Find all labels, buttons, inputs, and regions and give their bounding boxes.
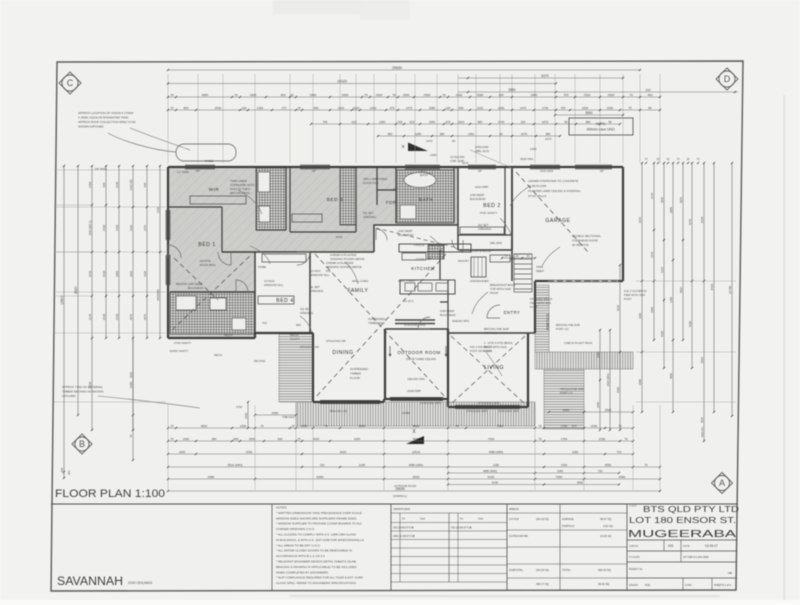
svg-text:4075: 4075 [143,313,147,320]
svg-text:615: 615 [410,120,415,124]
svg-text:PORTICO: PORTICO [546,314,550,331]
svg-text:1010: 1010 [477,106,484,110]
svg-text:ROBE: ROBE [258,265,266,269]
svg-text:1150MM STEPDOWN TO CONCRETE: 1150MM STEPDOWN TO CONCRETE [528,179,578,183]
svg-text:OPENING ROOMS ABOVE: OPENING ROOMS ABOVE [330,257,365,261]
svg-text:700: 700 [262,321,267,325]
svg-text:POD VANITY: POD VANITY [480,211,497,215]
svg-text:PORTICO:: PORTICO: [562,524,575,528]
svg-text:14482: 14482 [402,411,410,415]
witness lines [167,74,169,163]
svg-text:COOK & ADJSD: COOK & ADJSD [470,249,491,253]
svg-text:KISS: KISS [336,235,343,239]
svg-text:FLOOR PLAN 1:100: FLOOR PLAN 1:100 [55,488,165,500]
svg-text:260.00 SQ: 260.00 SQ [598,568,611,572]
svg-text:90: 90 [499,132,503,136]
svg-text:* WINDOW SUPPLIER TO PROVIDE C: * WINDOW SUPPLIER TO PROVIDE COVER BOARD… [276,522,362,526]
svg-text:4180: 4180 [660,331,664,337]
svg-text:DOUBLE SECTIONAL: DOUBLE SECTIONAL [572,234,601,238]
svg-text:OUTDOOR ROOM: OUTDOOR ROOM [394,484,416,488]
svg-text:20: 20 [290,93,294,97]
svg-text:1340: 1340 [669,297,673,303]
svg-text:STUD WALLS: STUD WALLS [528,194,546,198]
svg-text:PORT CO: PORT CO [560,391,573,395]
svg-text:3630: 3630 [102,313,106,320]
svg-text:2530: 2530 [249,437,256,441]
svg-text:51.20 C: 51.20 C [404,299,414,303]
corner marker B [72,434,92,454]
svg-text:5870: 5870 [679,196,683,203]
svg-text:2000: 2000 [563,408,570,412]
svg-text:2700: 2700 [236,405,243,409]
svg-text:1670: 1670 [462,161,469,165]
svg-text:ENSD VANITY: ENSD VANITY [170,349,189,353]
svg-text:6334: 6334 [700,216,704,223]
store room [471,257,486,277]
svg-text:GLASS SPEC. REFER TO ENGINEERS: GLASS SPEC. REFER TO ENGINEERS SPECIFICA… [276,581,357,585]
svg-text:1500: 1500 [403,93,410,97]
svg-text:70: 70 [297,437,301,441]
svg-text:POST: POST [530,305,538,309]
svg-text:8420: 8420 [700,356,704,363]
svg-text:PLASTER LINED CEILING & INTERN: PLASTER LINED CEILING & INTERNAL [528,189,581,193]
svg-text:WINDOW SILL: WINDOW SILL [310,273,330,277]
svg-text:4980 (MIN): 4980 (MIN) [483,469,497,473]
svg-text:1420: 1420 [115,224,119,231]
svg-text:1470: 1470 [426,139,433,143]
scan edge shadow right [783,95,786,600]
svg-text:2880: 2880 [638,378,642,385]
svg-text:890x2110 GD: 890x2110 GD [330,409,347,413]
svg-text:4370: 4370 [638,216,642,223]
svg-text:70: 70 [291,424,295,428]
svg-text:PORT CO: PORT CO [484,331,498,335]
timber deck band below house [296,402,535,426]
svg-text:8630: 8630 [359,424,366,428]
svg-text:3090: 3090 [477,93,484,97]
section marker triangle top [408,143,428,152]
svg-text:F.S.DATE: F.S.DATE [629,556,640,559]
svg-text:TIMBER FLR: TIMBER FLR [368,321,385,325]
svg-text:VIT VER 6.0 JAN 2006: VIT VER 6.0 JAN 2006 [683,556,709,559]
svg-text:STACKING DRS: STACKING DRS [420,401,441,405]
svg-text:940: 940 [459,106,464,110]
svg-text:3890: 3890 [669,372,673,379]
svg-text:4820: 4820 [201,424,208,428]
svg-text:WINDOW SIZES SHOWN ARE SUPPLIE: WINDOW SIZES SHOWN ARE SUPPLIERS FRAME S… [276,516,357,520]
outdoor room walls [384,329,386,399]
svg-text:2540: 2540 [215,106,222,110]
svg-text:1470: 1470 [520,106,527,110]
svg-text:BULKHEAD: BULKHEAD [398,233,414,237]
svg-text:1470: 1470 [406,106,413,110]
svg-text:4550: 4550 [577,480,584,484]
svg-text:70: 70 [455,424,459,428]
svg-text:1010: 1010 [353,106,360,110]
svg-text:4550: 4550 [619,475,626,479]
svg-text:370: 370 [390,106,395,110]
svg-text:1340: 1340 [498,106,505,110]
svg-text:SLAB FLOOR.: SLAB FLOOR. [528,184,547,188]
svg-text:DISHWASHER: DISHWASHER [470,279,489,283]
svg-text:BATH: BATH [419,197,433,202]
svg-text:015: 015 [668,544,674,548]
svg-text:2170: 2170 [650,193,654,199]
svg-text:4230: 4230 [115,313,119,320]
dashed ceiling lines [315,254,446,398]
svg-text:* RELEVANT ENGINEER DESIGN DET: * RELEVANT ENGINEER DESIGN DETAIL SHEETS… [276,560,357,564]
svg-text:1570: 1570 [650,252,654,258]
svg-text:70: 70 [170,424,174,428]
svg-text:840: 840 [234,437,239,441]
svg-text:1400: 1400 [88,181,92,188]
svg-text:1510: 1510 [458,120,465,124]
svg-text:1420: 1420 [129,224,133,231]
svg-text:80: 80 [648,106,652,110]
svg-text:WIR: WIR [209,187,220,192]
svg-text:TMB DKG: TMB DKG [282,415,295,419]
svg-text:1530: 1530 [376,93,383,97]
svg-text:APPROX ROOF COLLECTION AREA 70: APPROX ROOF COLLECTION AREA 70 M2 [78,120,136,124]
svg-text:70: 70 [538,437,542,441]
svg-text:1700: 1700 [561,424,568,428]
svg-text:3810 (MIN): 3810 (MIN) [227,463,242,467]
svg-text:TIMBER: TIMBER [350,372,361,376]
svg-text:720: 720 [320,463,325,467]
svg-text:200: 200 [280,93,285,97]
svg-text:AND 11-09-07 FJB: AND 11-09-07 FJB [393,534,415,538]
svg-text:ACCORDANCE WITH B.C.A.3.8.3.3.: ACCORDANCE WITH B.C.A.3.8.3.3. [276,554,326,558]
svg-text:2500: 2500 [605,408,612,412]
svg-text:230: 230 [645,88,650,92]
svg-text:3630: 3630 [102,270,106,277]
svg-text:19320: 19320 [337,79,347,83]
family south window [395,319,435,321]
svg-text:DP: DP [196,169,200,173]
svg-text:GARAGE:: GARAGE: [562,517,574,521]
svg-text:PORT CO: PORT CO [556,327,569,331]
svg-text:400: 400 [60,467,64,472]
svg-text:HB: HB [728,571,732,575]
rainwater tank [176,144,236,161]
svg-text:1000: 1000 [301,424,308,428]
svg-text:580: 580 [478,120,483,124]
svg-text:1670: 1670 [542,120,549,124]
svg-text:DP: DP [478,169,482,173]
svg-text:1350: 1350 [429,120,436,124]
svg-text:705: 705 [563,93,568,97]
svg-text:1410 DR: 1410 DR [129,179,133,190]
svg-text:2190: 2190 [591,424,598,428]
svg-text:26.02 SQ: 26.02 SQ [598,582,609,586]
svg-text:70: 70 [392,93,396,97]
svg-text:BED 4: BED 4 [276,298,294,304]
svg-text:Date: Date [478,518,484,521]
svg-text:1300: 1300 [257,106,264,110]
svg-text:3420: 3420 [313,437,320,441]
svg-text:1740: 1740 [498,120,505,124]
svg-text:12780: 12780 [728,285,732,294]
svg-text:* WRITTEN DIMENSIONS TAKE PREC: * WRITTEN DIMENSIONS TAKE PRECEDENCE OVE… [276,511,363,515]
svg-text:STACKING DRS: STACKING DRS [404,323,426,327]
svg-text:2680: 2680 [208,475,215,479]
svg-text:12800: 12800 [60,295,64,305]
svg-text:1500 (MIN): 1500 (MIN) [606,373,610,386]
svg-text:2530: 2530 [88,381,92,388]
svg-text:1530: 1530 [456,93,463,97]
svg-text:AREAS: AREAS [509,507,519,511]
svg-text:* ALL AREAS TO BE DRY U.N.O.: * ALL AREAS TO BE DRY U.N.O. [276,543,321,547]
svg-text:LO TANK: LO TANK [177,170,189,174]
garage entry steps [514,254,532,292]
bathroom tiled floor [396,170,454,223]
svg-text:STACKING DR: STACKING DR [300,345,319,349]
svg-text:940: 940 [102,182,106,187]
svg-text:12510: 12510 [412,450,421,454]
svg-text:VARIATIONS: VARIATIONS [393,507,410,511]
svg-text:2000: 2000 [272,411,279,415]
svg-text:4350: 4350 [616,387,620,393]
svg-text:B: B [79,439,85,449]
svg-text:WHEN COMPLETED BY ENGINEERS.: WHEN COMPLETED BY ENGINEERS. [276,570,329,574]
svg-text:STACKING DR: STACKING DR [326,339,346,343]
svg-text:70: 70 [170,106,174,110]
svg-text:CLIENT: CLIENT [629,506,637,508]
svg-text:370: 370 [572,424,577,428]
svg-text:GARAGE: GARAGE [545,218,570,224]
svg-text:460: 460 [647,93,652,97]
svg-text:3600: 3600 [129,371,133,378]
svg-text:2030: 2030 [607,106,614,110]
svg-text:3145: 3145 [88,313,92,320]
section marker triangle bottom [406,436,424,444]
svg-text:1015: 1015 [338,106,345,110]
title band separator [51,503,737,505]
svg-text:1820: 1820 [250,93,257,97]
svg-text:380: 380 [440,132,445,136]
svg-text:90: 90 [452,139,456,143]
notes block [271,504,273,590]
svg-text:7200: 7200 [556,475,563,479]
svg-text:NOTES:: NOTES: [276,506,287,510]
svg-text:890 RSD: 890 RSD [254,359,265,363]
svg-text:380: 380 [586,120,591,124]
linen/wc tiled strip [340,168,356,225]
interior walls [222,251,374,253]
svg-text:BED 1: BED 1 [198,242,216,248]
svg-text:70: 70 [624,437,628,441]
svg-text:70: 70 [170,437,174,441]
timber deck left of dining [279,333,313,402]
svg-text:ROOF RDG: ROOF RDG [200,263,216,267]
svg-text:1930: 1930 [88,270,92,277]
svg-text:POST WITH SHS: POST WITH SHS [470,349,492,353]
svg-text:OPENING: OPENING [478,227,492,231]
svg-text:25690: 25690 [392,66,402,70]
svg-text:1700: 1700 [561,437,568,441]
svg-text:BROOM CPDS: BROOM CPDS [230,191,250,195]
svg-text:CHECK PLAST PACK: CHECK PLAST PACK [564,341,593,345]
svg-text:2900: 2900 [424,93,431,97]
svg-text:3.51 SQ: 3.51 SQ [603,524,613,528]
ensuite tiled floor [256,168,286,230]
svg-text:SHOWN HATCHED: SHOWN HATCHED [78,125,104,129]
svg-text:DOOR SHD: DOOR SHD [363,181,379,185]
svg-text:370: 370 [446,120,451,124]
svg-text:APPROX 74M2 OF EXTERNAL: APPROX 74M2 OF EXTERNAL [62,385,103,389]
svg-text:03-09-07: 03-09-07 [705,544,718,548]
svg-text:1350: 1350 [468,132,475,136]
svg-text:SHAFT: SHAFT [290,337,300,341]
svg-text:2350: 2350 [240,424,247,428]
svg-text:DINING: DINING [332,350,353,356]
svg-text:545: 545 [143,182,147,187]
svg-text:1670: 1670 [545,137,552,141]
scan smudge top [273,0,373,14]
svg-text:2900: 2900 [531,93,538,97]
svg-text:BATH: BATH [420,173,428,177]
svg-text:BED 3: BED 3 [327,197,343,203]
svg-text:SHEAD OPG: SHEAD OPG [452,319,470,323]
paved path right of living [535,352,633,369]
svg-text:OPENING ROOMS ABOVE: OPENING ROOMS ABOVE [326,265,362,269]
areas table [626,504,628,590]
drawing sheet border [51,61,743,591]
svg-text:WALL OVEN: WALL OVEN [352,279,368,283]
svg-text:204.20 SQ: 204.20 SQ [536,517,549,521]
svg-text:OVERHEAD DOOR: OVERHEAD DOOR [572,239,598,243]
top dimension lines [168,69,640,71]
svg-text:2880: 2880 [669,206,673,213]
svg-text:3830: 3830 [660,196,664,203]
svg-text:1000: 1000 [183,437,190,441]
svg-text:1430: 1430 [143,270,147,277]
svg-text:LIV FLR: LIV FLR [509,517,519,521]
svg-text:DP: DP [600,169,604,173]
bedroom wing shaded floor area [168,167,458,338]
svg-text:70: 70 [170,93,174,97]
svg-text:C: C [67,78,74,88]
svg-text:JOB NO: JOB NO [629,545,638,548]
svg-text:CORNER WINDOWS U.N.O.: CORNER WINDOWS U.N.O. [276,527,315,531]
svg-text:5130: 5130 [492,480,499,484]
svg-text:8620: 8620 [413,437,420,441]
svg-text:14.20 SQ: 14.20 SQ [600,534,611,538]
kitchen bench [399,244,471,252]
svg-text:1180: 1180 [557,469,563,473]
svg-text:BRACING & FRAMING IF APPLICABL: BRACING & FRAMING IF APPLICABLE) TO BE I… [276,565,357,569]
svg-text:STACKING DRS: STACKING DRS [498,409,519,413]
svg-text:WINDOW SILL: WINDOW SILL [264,283,284,287]
svg-text:1430: 1430 [244,413,248,419]
svg-text:OPENING: OPENING [310,289,324,293]
svg-text:TRIM: TRIM [586,279,594,283]
svg-text:OSCAT LINED CEILING: OSCAT LINED CEILING [406,357,436,361]
corner marker D [716,68,738,90]
svg-text:A: A [719,478,725,488]
svg-text:2600: 2600 [310,93,317,97]
svg-text:PERMIT No.: PERMIT No. [629,568,643,571]
svg-text:4910: 4910 [679,286,683,293]
svg-text:BTS QLD PTY LTD: BTS QLD PTY LTD [643,505,739,514]
svg-text:BULKHEAD: BULKHEAD [188,286,204,290]
svg-text:WALL OVEN: WALL OVEN [398,279,415,283]
svg-text:WC: WC [393,187,398,191]
svg-text:COOK TOP: COOK TOP [416,257,431,261]
svg-text:* ALL GLAZING TO COMPLY WITH A: * ALL GLAZING TO COMPLY WITH A.S. 1288-1… [276,533,356,537]
variations table [390,504,392,590]
svg-text:1220: 1220 [156,206,160,213]
svg-text:38.07 SQ: 38.07 SQ [600,517,611,521]
svg-text:4980 (MIN): 4980 (MIN) [409,463,423,467]
svg-text:SUSPENDED: SUSPENDED [350,367,368,371]
svg-text:Date: Date [420,518,426,521]
svg-text:STACKING DRS: STACKING DRS [466,409,488,413]
right dimension lines [641,163,643,412]
svg-text:4800: 4800 [202,93,209,97]
svg-text:2190: 2190 [359,463,366,467]
svg-text:1940: 1940 [650,307,654,313]
svg-text:260.17 SQ: 260.17 SQ [536,582,549,586]
svg-text:OUTDOOR ROOM: OUTDOOR ROOM [397,350,440,355]
svg-text:1280: 1280 [415,132,422,136]
svg-text:LOT 180 ENSOR ST.: LOT 180 ENSOR ST. [629,516,736,525]
svg-text:380: 380 [546,132,551,136]
svg-text:FAMILY: FAMILY [347,288,368,294]
svg-text:X: X [401,144,404,149]
svg-text:705: 705 [561,106,566,110]
svg-text:1180: 1180 [493,463,500,467]
svg-text:POST: POST [624,297,632,301]
svg-text:720: 720 [598,469,603,473]
laundry tiled floor [170,292,255,334]
svg-text:204.20 SQ: 204.20 SQ [536,568,549,572]
svg-text:4070: 4070 [129,313,133,320]
svg-text:3500 MIN.: 3500 MIN. [520,157,534,161]
svg-text:1340: 1340 [115,181,119,188]
svg-text:TOTAL:: TOTAL: [562,568,571,572]
svg-text:No.: No. [402,518,406,521]
svg-text:70: 70 [324,424,328,428]
svg-text:DRAWN: DRAWN [629,584,638,587]
svg-text:800: 800 [184,106,189,110]
svg-text:3000: 3000 [701,417,704,423]
svg-text:1340: 1340 [370,106,377,110]
svg-text:BED 2: BED 2 [483,203,501,209]
scan edge shadow bottom [290,595,720,597]
svg-text:DATE:: DATE: [683,545,690,548]
corner marker A [712,473,733,494]
svg-text:POR: POR [386,200,397,205]
svg-text:70: 70 [234,93,238,97]
svg-text:ISS 29-09-07 FJB: ISS 29-09-07 FJB [393,526,414,530]
svg-text:1280: 1280 [596,352,600,358]
svg-text:D: D [724,74,731,84]
svg-text:PJD: PJD [645,583,650,587]
svg-text:5650: 5650 [508,88,515,92]
svg-text:70: 70 [442,93,446,97]
svg-text:940: 940 [314,106,319,110]
svg-text:* ALL WATER CLOSET DOORS TO BE: * ALL WATER CLOSET DOORS TO BE REMOVABLE… [276,549,352,553]
svg-text:MECH: MECH [214,353,222,357]
svg-text:1530: 1530 [582,106,589,110]
svg-text:IN BUILDINGS, & WITH A.S. 2047: IN BUILDINGS, & WITH A.S. 2047-1999 FOR … [276,538,365,542]
svg-text:X 2600L AQUILON RAINWATER TA: X 2600L AQUILON RAINWATER TANK. [78,116,129,120]
svg-text:7200: 7200 [488,437,495,441]
svg-text:70: 70 [129,434,133,438]
svg-text:70: 70 [618,424,622,428]
svg-text:CEILING FAN: CEILING FAN [407,377,424,381]
